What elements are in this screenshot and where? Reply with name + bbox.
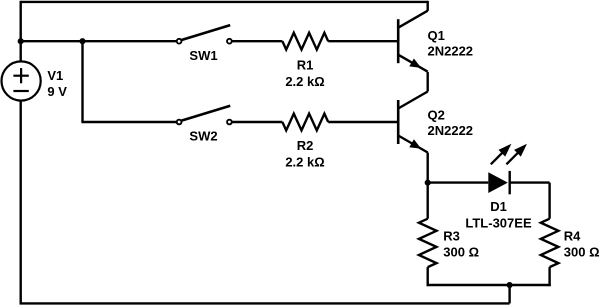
resistor R4 300 bbox=[541, 219, 559, 267]
svg-text:D1: D1 bbox=[490, 199, 507, 214]
svg-text:R2: R2 bbox=[297, 138, 314, 153]
svg-text:SW1: SW1 bbox=[189, 48, 217, 63]
wire left rail upper bbox=[20, 1, 22, 62]
svg-text:SW2: SW2 bbox=[189, 129, 217, 144]
resistor R2 2.2k bbox=[282, 114, 328, 131]
svg-text:R4: R4 bbox=[564, 229, 581, 244]
wire row2 left bbox=[81, 121, 176, 123]
wire SW1 to R1 bbox=[232, 40, 283, 42]
wire R2 to Q2 base bbox=[328, 121, 397, 123]
svg-text:2N2222: 2N2222 bbox=[428, 123, 474, 138]
wire R4 bottom bbox=[548, 267, 550, 286]
svg-text:9 V: 9 V bbox=[47, 84, 67, 99]
wire R1 to Q1 base bbox=[328, 40, 397, 42]
svg-text:2.2 kΩ: 2.2 kΩ bbox=[285, 155, 324, 170]
LED D1 bbox=[488, 172, 508, 193]
wire to bottom rail bbox=[508, 285, 510, 303]
wire Q1 emitter to Q2 collector bbox=[427, 72, 429, 92]
svg-text:Q2: Q2 bbox=[428, 108, 445, 123]
wire SW2 to R2 bbox=[232, 121, 283, 123]
wire Q2 emitter down bbox=[427, 153, 429, 183]
transistor Q2 2N2222 bbox=[397, 100, 400, 144]
svg-text:300 Ω: 300 Ω bbox=[564, 244, 600, 259]
node junction dot D bbox=[507, 282, 513, 288]
node junction dot C bbox=[425, 180, 431, 186]
node junction dot B bbox=[79, 38, 85, 44]
wire R3 bottom bbox=[427, 267, 429, 286]
resistor R3 300 bbox=[419, 219, 437, 267]
svg-text:R1: R1 bbox=[297, 58, 314, 73]
wire row1 left bbox=[21, 40, 177, 42]
svg-text:V1: V1 bbox=[47, 68, 63, 83]
wire Q1 collector to top rail bbox=[427, 1, 429, 11]
resistor R1 2.2k bbox=[282, 33, 328, 50]
wire bottom rail bbox=[20, 302, 510, 304]
svg-text:LTL-307EE: LTL-307EE bbox=[465, 216, 532, 231]
wire dot C down to R3 bbox=[427, 183, 429, 219]
LED light arrow 1 bbox=[491, 152, 503, 164]
svg-text:Q1: Q1 bbox=[428, 28, 445, 43]
svg-text:R3: R3 bbox=[443, 229, 460, 244]
wire LED row down to R4 bbox=[548, 183, 550, 219]
svg-text:2.2 kΩ: 2.2 kΩ bbox=[285, 74, 324, 89]
voltage source V1 bbox=[2, 61, 41, 100]
wire D1 cathode to R4 branch bbox=[510, 181, 550, 183]
wire to D1 anode bbox=[428, 181, 489, 183]
svg-text:2N2222: 2N2222 bbox=[428, 44, 474, 59]
wire left rail lower bbox=[20, 101, 22, 305]
wire branch vertical bbox=[81, 41, 83, 122]
wire top rail bbox=[21, 1, 428, 3]
svg-text:300 Ω: 300 Ω bbox=[443, 244, 479, 259]
wire R3-R4 bottom join bbox=[427, 284, 551, 286]
transistor Q1 2N2222 bbox=[397, 19, 400, 63]
switch SW1 bbox=[180, 25, 230, 40]
LED light arrow 2 bbox=[506, 152, 518, 164]
node junction dot A bbox=[18, 38, 24, 44]
switch SW2 bbox=[180, 106, 230, 121]
